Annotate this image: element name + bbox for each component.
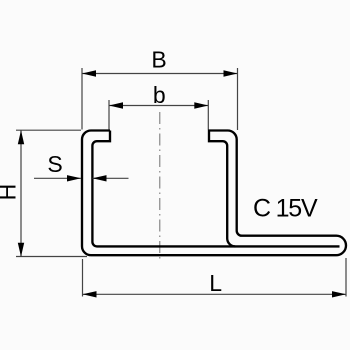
svg-text:L: L xyxy=(209,270,222,296)
dimension B line xyxy=(82,73,238,75)
b left ext line xyxy=(108,100,110,130)
svg-text:B: B xyxy=(151,47,166,73)
L right arrow xyxy=(332,291,346,297)
S right arrow xyxy=(93,175,107,181)
H top arrow xyxy=(18,130,24,144)
S left arrow xyxy=(67,175,81,181)
b right ext line xyxy=(207,100,209,130)
H top ext line xyxy=(16,129,81,131)
svg-text:S: S xyxy=(47,151,62,177)
B right arrow xyxy=(224,70,238,76)
svg-text:H: H xyxy=(0,184,21,201)
svg-text:C 15V: C 15V xyxy=(253,195,318,223)
dimension S left tail xyxy=(34,177,81,179)
svg-text:b: b xyxy=(153,82,166,108)
b left arrow xyxy=(109,102,123,108)
profile outer surface xyxy=(82,131,346,256)
H bottom ext line xyxy=(16,256,87,258)
dimension b line xyxy=(109,105,208,107)
centerline xyxy=(159,112,161,261)
b right arrow xyxy=(194,102,208,108)
L left arrow xyxy=(83,291,97,297)
B right ext line xyxy=(237,68,239,130)
L left ext line xyxy=(82,259,84,297)
profile inner surface xyxy=(92,131,339,247)
B left arrow xyxy=(82,70,96,76)
B left ext line xyxy=(81,68,83,130)
dimension L line xyxy=(83,293,347,295)
H bottom arrow xyxy=(18,243,24,257)
dimension H line xyxy=(20,130,22,257)
S right tail xyxy=(93,177,129,179)
L right ext line xyxy=(345,258,347,297)
